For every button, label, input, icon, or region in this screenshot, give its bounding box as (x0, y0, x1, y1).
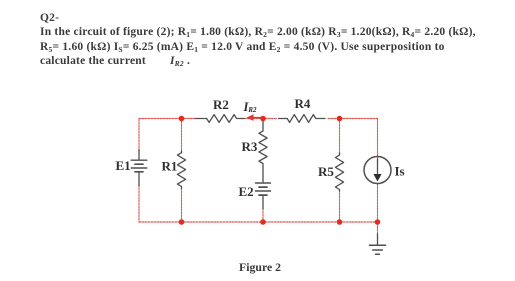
svg-text:Figure 2: Figure 2 (239, 260, 281, 274)
resistor R5 (335, 153, 343, 191)
node top R1 (179, 116, 185, 122)
node bottom E2 (260, 219, 266, 225)
battery E1 (138, 150, 140, 161)
resistor R3 (259, 121, 267, 183)
wire E1 branch lower (138, 185, 140, 222)
svg-text:IR2: IR2 (243, 100, 258, 114)
svg-text:R2: R2 (213, 97, 229, 112)
wire Is branch lower (377, 184, 379, 236)
wire R3 branch top stub (262, 119, 264, 123)
svg-text:Is: Is (395, 163, 405, 178)
svg-text:R3: R3 (242, 139, 258, 154)
wire R1 branch lower (181, 188, 183, 222)
node bottom R1 (179, 219, 185, 225)
wire R5 branch (339, 119, 341, 155)
wire E2 branch lower (262, 209, 264, 223)
wire bottom rail (139, 221, 378, 223)
node top R5 (337, 116, 343, 122)
wire top rail left segment (139, 118, 196, 120)
wire Is branch upper (377, 119, 379, 163)
current source Is (364, 157, 391, 184)
problem statement text (40, 11, 510, 69)
wire top rail right segment (328, 118, 378, 120)
node top R3 (260, 116, 266, 122)
wire top rail arrow segment (242, 118, 278, 120)
svg-text:R4: R4 (295, 96, 311, 111)
node bottom Is/ground (375, 219, 381, 225)
resistor R1 (177, 151, 185, 189)
ground (377, 234, 379, 245)
node bottom R5 (337, 219, 343, 225)
battery E2 (256, 182, 271, 184)
wire R1 branch (181, 119, 183, 153)
wire E1 branch upper (138, 119, 140, 152)
svg-text:E1: E1 (116, 158, 131, 173)
resistor R4 (279, 118, 288, 120)
wire R5 branch lower (339, 190, 341, 222)
current arrow IR2 (252, 117, 263, 119)
svg-text:E2: E2 (239, 184, 254, 199)
resistor R2 (196, 118, 207, 120)
svg-text:R1: R1 (162, 159, 178, 174)
svg-text:R5: R5 (318, 164, 334, 179)
